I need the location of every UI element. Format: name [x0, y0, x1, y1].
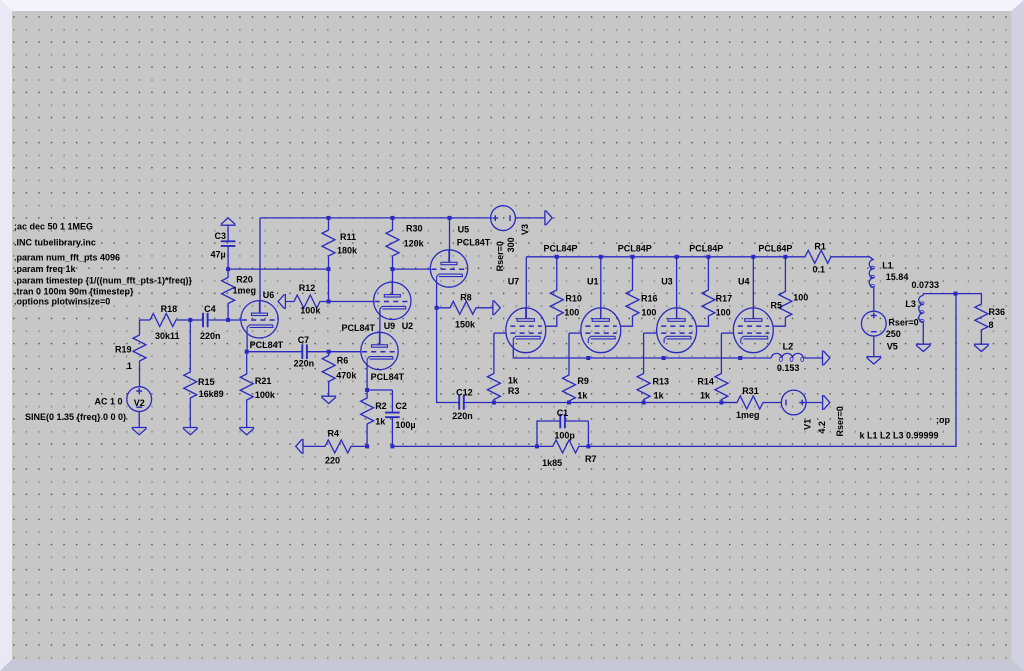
wire C1 right down	[587, 421, 589, 446]
resistor R1	[785, 250, 851, 263]
junction R11-R12	[327, 300, 331, 304]
svg-text:PCL84P: PCL84P	[758, 244, 792, 254]
svg-text:;op: ;op	[936, 415, 950, 425]
junction rail R30	[391, 216, 395, 220]
resistor R2	[361, 390, 374, 446]
svg-text:R1: R1	[814, 241, 826, 251]
junction C2 bottom	[390, 444, 394, 448]
wire R10 to U7 g2	[545, 316, 557, 326]
resistor R11	[322, 218, 335, 302]
resistor R9	[563, 333, 576, 402]
svg-text:R12: R12	[299, 283, 316, 293]
junction U6 cathode	[245, 350, 249, 354]
tube U3	[657, 308, 697, 353]
wire V1 right	[806, 402, 823, 404]
svg-text:PCL84T: PCL84T	[371, 372, 405, 382]
svg-text:R11: R11	[340, 232, 356, 242]
voltage source V3	[491, 206, 516, 231]
wire U5 plate	[449, 218, 451, 263]
wire R2 to C2 top	[367, 389, 392, 391]
svg-text:R5: R5	[771, 300, 783, 310]
svg-text:100: 100	[716, 307, 731, 317]
junction R7 left	[535, 444, 539, 448]
svg-text:PCL84T: PCL84T	[342, 323, 376, 333]
junction R7 right	[586, 444, 590, 448]
svg-text:Rser=0: Rser=0	[495, 241, 505, 271]
resistor R10	[550, 257, 563, 316]
svg-text:R13: R13	[653, 377, 670, 387]
svg-text:100: 100	[641, 307, 656, 317]
svg-text:1meg: 1meg	[736, 410, 760, 420]
svg-text:U6: U6	[263, 290, 275, 300]
svg-text:R21: R21	[255, 376, 272, 386]
svg-text:PCL84P: PCL84P	[544, 244, 578, 254]
ground flag right of L2	[823, 351, 830, 366]
svg-text:PCL84T: PCL84T	[457, 237, 491, 247]
svg-text:R20: R20	[236, 274, 253, 284]
svg-text:U9: U9	[384, 321, 396, 331]
svg-text:R17: R17	[716, 294, 733, 304]
wire R1 to L1	[851, 257, 874, 260]
svg-text:220n: 220n	[200, 331, 221, 341]
svg-text:100k: 100k	[300, 306, 321, 316]
wire L3 to ground	[922, 322, 924, 344]
capacitor C2	[391, 390, 393, 413]
junction U1 cathode	[586, 356, 590, 360]
op-amp U6 plate wire	[259, 218, 261, 313]
ground flag above C3	[221, 218, 236, 225]
svg-text:R31: R31	[742, 386, 759, 396]
ground flag left of R4	[296, 439, 303, 454]
svg-text:.param freq 1k: .param freq 1k	[14, 264, 77, 274]
resistor R36	[975, 294, 988, 345]
junction R14 bottom	[719, 401, 723, 405]
inductor L1	[869, 260, 874, 287]
wire C3 to R11	[228, 268, 328, 270]
svg-text:250: 250	[886, 329, 901, 339]
svg-text:;ac dec 50 1 1MEG: ;ac dec 50 1 1MEG	[14, 222, 93, 232]
resistor R18	[150, 314, 190, 327]
svg-text:120k: 120k	[404, 238, 425, 248]
ground flag right of R8	[493, 300, 500, 315]
resistor R5	[779, 257, 792, 318]
svg-text:R4: R4	[328, 429, 340, 439]
svg-text:.param num_fft_pts 4096: .param num_fft_pts 4096	[14, 253, 120, 263]
svg-text:R14: R14	[697, 377, 714, 387]
svg-text:C12: C12	[456, 388, 473, 398]
resistor R31	[721, 396, 781, 409]
resistor R20	[222, 269, 235, 320]
resistor R15	[184, 320, 197, 428]
svg-text:4.2: 4.2	[817, 421, 827, 434]
svg-text:1k: 1k	[577, 391, 588, 401]
resistor R14	[715, 333, 728, 402]
svg-text:R9: R9	[577, 376, 589, 386]
junction R17 rail	[706, 255, 710, 259]
resistor R19	[133, 320, 146, 387]
svg-text:1k: 1k	[654, 390, 665, 400]
svg-text:PCL84T: PCL84T	[250, 340, 284, 350]
ground flag left of R12	[278, 294, 285, 309]
svg-text:1k85: 1k85	[542, 458, 562, 468]
junction R10 rail	[555, 255, 559, 259]
resistor R8	[437, 301, 493, 314]
wire U9 cathode	[366, 364, 368, 390]
wire bus to R7	[392, 445, 537, 447]
svg-text:1k: 1k	[508, 376, 519, 386]
svg-text:U4: U4	[738, 277, 750, 287]
svg-text:180k: 180k	[337, 245, 358, 255]
junction R3 bottom	[492, 401, 496, 405]
svg-text:L2: L2	[783, 342, 794, 352]
tube U2	[374, 282, 411, 319]
svg-text:U7: U7	[508, 277, 520, 287]
junction U1 rail	[599, 255, 603, 259]
wire U5 cathode down	[437, 282, 457, 403]
svg-text:0.1: 0.1	[813, 265, 826, 275]
svg-text:8: 8	[989, 320, 994, 330]
junction R9 bottom	[567, 401, 571, 405]
svg-text:.INC tubelibrary.inc: .INC tubelibrary.inc	[14, 238, 96, 248]
inductor L3	[919, 296, 924, 322]
svg-text:R3: R3	[508, 386, 520, 396]
wire U1 plate drop	[600, 257, 602, 319]
svg-text:220: 220	[325, 456, 340, 466]
junction output node	[954, 292, 958, 296]
wire top rail right	[526, 256, 785, 258]
svg-text:300: 300	[506, 237, 516, 252]
junction rail R11	[327, 216, 331, 220]
capacitor C4	[190, 319, 203, 321]
junction R2 top	[365, 388, 369, 392]
svg-text:U3: U3	[661, 277, 673, 287]
junction R16 rail	[631, 255, 635, 259]
junction R30-U5grid	[391, 267, 395, 271]
svg-text:.tran 0 100m 90m {timestep}: .tran 0 100m 90m {timestep}	[14, 286, 134, 296]
capacitor C1	[559, 420, 561, 422]
svg-text:0.0733: 0.0733	[912, 280, 940, 290]
ground R6	[321, 396, 336, 403]
resistor R13	[637, 333, 650, 402]
junction R2 bottom	[365, 444, 369, 448]
svg-text:100p: 100p	[554, 431, 575, 441]
svg-text:C4: C4	[204, 304, 216, 314]
svg-text:U2: U2	[402, 321, 414, 331]
svg-text:k L1 L2 L3 0.99999: k L1 L2 L3 0.99999	[860, 431, 939, 441]
svg-text:15.84: 15.84	[886, 272, 909, 282]
junction U4 cathode	[738, 356, 742, 360]
svg-text:1meg: 1meg	[233, 285, 257, 295]
svg-text:C2: C2	[395, 401, 407, 411]
junction U4 rail	[751, 255, 755, 259]
wire U1 g1	[569, 332, 581, 334]
svg-text:C3: C3	[215, 231, 227, 241]
ground R36	[974, 344, 989, 351]
wire R12 to U2 grid	[329, 301, 374, 303]
wire U7 g1	[494, 332, 507, 334]
wire U7 plate drop	[525, 257, 527, 319]
svg-text:.param timestep {1/((num_fft_p: .param timestep {1/((num_fft_pts-1)*freq…	[14, 275, 193, 285]
ground V2	[132, 428, 147, 435]
svg-text:R6: R6	[337, 356, 349, 366]
svg-text:C7: C7	[298, 335, 310, 345]
wire U4 plate drop	[752, 257, 754, 319]
capacitor C7	[247, 351, 303, 353]
ground V5	[866, 357, 881, 364]
wire L3 top	[923, 294, 981, 296]
ground flag right of V3	[545, 210, 552, 225]
junction rail U5	[448, 216, 452, 220]
ground L3	[916, 344, 931, 351]
resistor R12	[285, 295, 328, 308]
svg-text:PCL84P: PCL84P	[618, 244, 652, 254]
junction U3 rail	[675, 255, 679, 259]
ground R21	[239, 428, 254, 435]
window frame right bevel	[1012, 0, 1024, 671]
inductor L2	[771, 353, 803, 358]
svg-text:1k: 1k	[700, 390, 711, 400]
junction R13 bottom	[642, 401, 646, 405]
wire top rail left	[260, 217, 491, 219]
svg-text:SINE(0 1.35 {freq} 0 0 0): SINE(0 1.35 {freq} 0 0 0)	[25, 412, 126, 422]
wire V3 right	[515, 217, 545, 219]
wire R16 to U1 g2	[620, 316, 632, 326]
svg-text:C1: C1	[557, 408, 569, 418]
svg-text:V1: V1	[802, 419, 812, 430]
svg-text:R18: R18	[161, 304, 178, 314]
svg-text:R16: R16	[641, 294, 658, 304]
svg-text:AC 1 0: AC 1 0	[95, 396, 123, 406]
svg-text:Rser=0: Rser=0	[888, 318, 918, 328]
wire U4 g1	[721, 332, 734, 334]
tube U7	[506, 308, 546, 353]
svg-text:R30: R30	[406, 224, 423, 234]
wire U6 cathode	[246, 332, 248, 351]
svg-text:R19: R19	[115, 344, 132, 354]
svg-text:1: 1	[127, 361, 132, 371]
wire V5 to ground	[873, 336, 875, 357]
wire U2 cathode to U9 plate	[379, 309, 381, 344]
voltage source V5	[861, 311, 886, 336]
wire V2 to ground	[138, 412, 140, 428]
wire grid line left	[140, 319, 151, 321]
tube U4	[733, 308, 773, 353]
resistor R4	[303, 440, 367, 453]
wire U3 g1	[644, 332, 658, 334]
wire cathode bus	[513, 343, 771, 358]
resistor R6	[322, 352, 335, 397]
tube U9	[361, 332, 398, 369]
resistor R16	[626, 257, 639, 316]
svg-text:R8: R8	[460, 292, 472, 302]
svg-text:16k89: 16k89	[199, 389, 224, 399]
tube U6	[241, 301, 278, 338]
junction C3-R20	[226, 267, 230, 271]
svg-text:U1: U1	[587, 277, 599, 287]
svg-text:R2: R2	[375, 401, 387, 411]
wire R5 to U4 g2	[773, 318, 786, 327]
svg-text:1k: 1k	[375, 416, 386, 426]
voltage source V2	[127, 387, 152, 412]
svg-text:.options plotwinsize=0: .options plotwinsize=0	[14, 297, 110, 307]
junction R6 top	[327, 350, 331, 354]
ground flag right of V1	[823, 395, 830, 410]
svg-text:220n: 220n	[294, 358, 315, 368]
svg-text:R10: R10	[565, 294, 582, 304]
junction R15 top	[188, 318, 192, 322]
wire C12 to R31	[494, 402, 737, 404]
tube U5	[430, 250, 467, 287]
window frame bottom bevel	[0, 659, 1024, 671]
resistor R21	[240, 352, 253, 428]
junction R8	[435, 306, 439, 310]
svg-text:PCL84P: PCL84P	[689, 244, 723, 254]
svg-text:V2: V2	[134, 398, 145, 408]
svg-text:V3: V3	[520, 224, 530, 235]
junction R5 rail	[783, 255, 787, 259]
wire U5 grid	[393, 268, 431, 270]
svg-text:0.153: 0.153	[777, 363, 800, 373]
resistor R3	[487, 333, 500, 402]
svg-text:220n: 220n	[452, 411, 473, 421]
svg-text:R36: R36	[989, 307, 1006, 317]
wire L1 to V5	[873, 287, 875, 311]
junction R11 mid	[327, 267, 331, 271]
resistor R7	[537, 440, 588, 453]
svg-text:100: 100	[793, 293, 808, 303]
window frame top bevel	[0, 0, 1024, 11]
svg-text:150k: 150k	[455, 319, 476, 329]
svg-text:100k: 100k	[255, 390, 276, 400]
wire U3 plate drop	[676, 257, 678, 319]
svg-text:L3: L3	[905, 299, 916, 309]
capacitor C12	[457, 402, 459, 404]
junction U3 cathode	[662, 356, 666, 360]
resistor R17	[702, 257, 715, 316]
resistor R30	[386, 218, 399, 295]
svg-text:R15: R15	[198, 377, 215, 387]
ground R15	[183, 428, 198, 435]
svg-text:V5: V5	[887, 342, 898, 352]
svg-text:U5: U5	[458, 225, 470, 235]
svg-text:470k: 470k	[336, 371, 357, 381]
svg-text:100µ: 100µ	[395, 420, 415, 430]
tube U1	[581, 308, 621, 353]
window frame left bevel	[0, 0, 12, 671]
wire C1 loop	[537, 421, 560, 446]
capacitor C3	[227, 225, 229, 241]
wire L2 right	[803, 357, 822, 359]
svg-text:L1: L1	[882, 260, 893, 270]
svg-text:47µ: 47µ	[211, 250, 226, 260]
junction R20 bottom	[226, 318, 230, 322]
svg-text:100: 100	[564, 307, 579, 317]
svg-text:Rser=0: Rser=0	[835, 406, 845, 436]
wire bus right	[588, 294, 956, 447]
voltage source V1	[781, 390, 806, 415]
svg-text:R7: R7	[585, 454, 597, 464]
svg-text:30k11: 30k11	[155, 331, 180, 341]
wire R17 to U3 g2	[696, 316, 708, 326]
